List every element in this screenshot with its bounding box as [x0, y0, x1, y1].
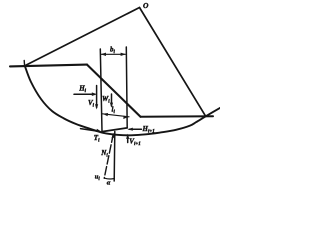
arrowhead l_i right — [123, 116, 129, 119]
svg-text:Wi: Wi — [102, 95, 110, 105]
force arrow W_i shaft — [111, 94, 113, 106]
arrowhead V_i — [95, 104, 98, 109]
arrowhead T_i — [96, 129, 102, 132]
svg-text:li: li — [112, 106, 116, 116]
slice right boundary — [125, 47, 128, 128]
svg-text:ui: ui — [95, 174, 101, 183]
svg-text:Ti: Ti — [94, 134, 100, 144]
tick at left junction — [23, 61, 25, 66]
arrowhead W_i — [110, 103, 113, 108]
radius line right — [140, 8, 206, 117]
force arrow H_i+1 shaft — [129, 128, 141, 130]
svg-text:O: O — [143, 1, 149, 10]
slip circle arc — [25, 66, 220, 136]
svg-text:Hi+1: Hi+1 — [142, 125, 155, 135]
force arrow V_i+1 shaft — [127, 135, 129, 142]
force arrow T_i shaft — [81, 129, 100, 132]
vertical reference line below base — [113, 132, 116, 182]
slice left boundary — [100, 49, 102, 131]
ground surface left — [10, 65, 87, 67]
arrowhead N_i (up along normal) — [111, 133, 114, 138]
angle alpha arc — [105, 177, 115, 180]
force arrow H_i shaft — [74, 93, 93, 95]
dimension line l_i — [103, 114, 130, 117]
slope face — [87, 65, 141, 117]
arrowhead b_i left — [101, 53, 106, 56]
svg-text:Ni: Ni — [100, 149, 108, 159]
svg-text:Hi: Hi — [78, 85, 86, 95]
radius line left — [25, 8, 140, 66]
svg-text:bi: bi — [110, 45, 116, 55]
svg-text:Vi: Vi — [88, 99, 95, 109]
ground surface right — [141, 115, 214, 118]
svg-text:α: α — [107, 179, 111, 185]
slice base chord — [102, 128, 127, 132]
force arrow V_i shaft — [96, 86, 98, 108]
arrowhead V_i+1 — [126, 134, 129, 139]
arrowhead l_i left — [103, 113, 108, 116]
svg-text:Vi+1: Vi+1 — [129, 138, 140, 148]
arrowhead b_i right — [121, 53, 126, 56]
normal force N_i line of action (dashed) — [104, 134, 113, 178]
arrowhead H_i+1 — [127, 128, 132, 131]
arrowhead H_i — [92, 92, 97, 96]
dimension line b_i — [101, 53, 125, 55]
